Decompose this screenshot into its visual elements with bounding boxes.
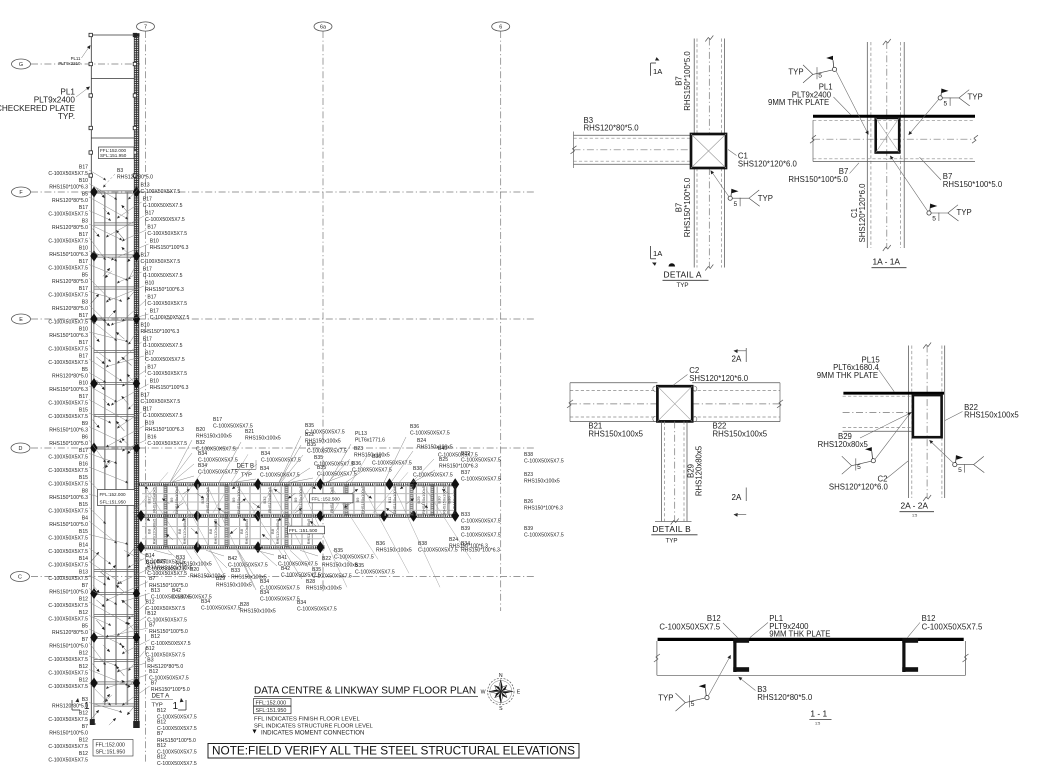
svg-text:B17: B17	[79, 232, 88, 238]
svg-text:RHS120*80*5.0: RHS120*80*5.0	[52, 374, 88, 380]
svg-text:RHS150*100*6.3: RHS150*100*6.3	[145, 287, 184, 293]
svg-text:B17: B17	[147, 365, 156, 371]
svg-text:1: 1	[173, 701, 179, 712]
svg-text:B42: B42	[228, 556, 237, 562]
svg-text:C-100X50X5X7.5: C-100X50X5X7.5	[213, 424, 253, 430]
svg-text:RHS150*100*5.0: RHS150*100*5.0	[49, 644, 88, 650]
svg-text:B7: B7	[151, 681, 157, 687]
svg-text:SFL:151.950: SFL:151.950	[100, 153, 127, 158]
svg-text:B16: B16	[147, 435, 156, 441]
svg-text:1A: 1A	[653, 249, 663, 258]
svg-text:B3: B3	[82, 300, 88, 306]
svg-text:B7: B7	[82, 724, 88, 730]
svg-text:C-100X50X5X7.5: C-100X50X5X7.5	[461, 458, 501, 464]
svg-text:C-100X50X5X7.5: C-100X50X5X7.5	[150, 315, 190, 321]
svg-text:1:5: 1:5	[912, 514, 917, 518]
svg-text:B35: B35	[307, 442, 316, 448]
svg-text:9MM THK PLATE: 9MM THK PLATE	[768, 98, 829, 107]
svg-text:B36: B36	[352, 461, 361, 467]
svg-text:TYP: TYP	[758, 194, 773, 203]
svg-text:B17: B17	[213, 417, 222, 423]
svg-text:C-100X50X5X7.5: C-100X50X5X7.5	[48, 212, 88, 218]
svg-text:FFL :151.500: FFL :151.500	[289, 528, 318, 534]
svg-text:B34: B34	[261, 451, 270, 457]
svg-text:B34: B34	[198, 451, 207, 457]
svg-text:RHS150x100x5: RHS150x100x5	[240, 609, 276, 615]
svg-text:RHS150*100*6.3: RHS150*100*6.3	[524, 506, 563, 512]
svg-text:FFL :152.500: FFL :152.500	[312, 497, 341, 503]
svg-text:RHS120x80x5: RHS120x80x5	[267, 486, 272, 513]
svg-text:C-100X50X5X7.5: C-100X50X5X7.5	[413, 473, 453, 479]
svg-text:B5: B5	[82, 624, 88, 630]
svg-text:TYP: TYP	[968, 93, 983, 102]
svg-text:B37: B37	[461, 470, 470, 476]
svg-text:5: 5	[734, 201, 738, 208]
svg-text:RHS150x100x5: RHS150x100x5	[376, 548, 412, 554]
svg-text:B12: B12	[157, 754, 166, 760]
svg-text:6: 6	[499, 24, 502, 30]
svg-text:C-100X50X5X7.5: C-100X50X5X7.5	[48, 171, 88, 177]
svg-text:B14: B14	[146, 560, 155, 566]
svg-text:C-100X50X5X7.5: C-100X50X5X7.5	[307, 449, 347, 455]
svg-text:C-100X50X5X7.5: C-100X50X5X7.5	[147, 371, 187, 377]
svg-text:B21: B21	[245, 429, 254, 435]
svg-text:D: D	[19, 446, 23, 452]
svg-text:RHS150*100*5.0: RHS150*100*5.0	[49, 731, 88, 737]
svg-text:DATA CENTRE & LINKWAY SUMP FLO: DATA CENTRE & LINKWAY SUMP FLOOR PLAN	[254, 686, 476, 697]
svg-text:RHS120*80*5.0: RHS120*80*5.0	[584, 124, 640, 133]
svg-text:W: W	[481, 690, 486, 696]
svg-text:FFL:152.000: FFL:152.000	[100, 492, 126, 497]
svg-text:C-100X50X5X7.5: C-100X50X5X7.5	[317, 472, 357, 478]
svg-text:RHS150x100x5: RHS150x100x5	[417, 445, 453, 451]
svg-text:C-100X50X5X7.5: C-100X50X5X7.5	[141, 189, 181, 195]
svg-text:B4: B4	[82, 516, 88, 522]
svg-text:RHS120x80x5: RHS120x80x5	[182, 518, 187, 545]
svg-text:B22: B22	[305, 432, 314, 438]
svg-text:RHS150*100*6.3: RHS150*100*6.3	[49, 428, 88, 434]
svg-text:5: 5	[958, 467, 962, 474]
svg-text:B23: B23	[354, 446, 363, 452]
svg-text:RHS120x80x5: RHS120x80x5	[151, 518, 156, 545]
svg-text:B5: B5	[82, 367, 88, 373]
svg-text:RHS120x80x5: RHS120x80x5	[213, 518, 218, 545]
svg-text:C-100X50X5X7.5: C-100X50X5X7.5	[147, 301, 187, 307]
svg-text:B10: B10	[141, 323, 150, 329]
svg-text:B40: B40	[438, 446, 447, 452]
svg-text:C-100X50X5X7.5: C-100X50X5X7.5	[260, 597, 300, 603]
svg-text:TYP: TYP	[152, 703, 163, 709]
svg-text:9MM THK PLATE: 9MM THK PLATE	[817, 371, 878, 380]
svg-text:TYP: TYP	[788, 68, 803, 77]
svg-text:1:5: 1:5	[815, 722, 820, 726]
svg-text:B12: B12	[157, 720, 166, 726]
svg-text:2A: 2A	[732, 355, 742, 364]
svg-text:C-100X50X5X7.5: C-100X50X5X7.5	[48, 603, 88, 609]
svg-text:B12: B12	[146, 599, 155, 605]
svg-text:RHS150*100*5.0: RHS150*100*5.0	[943, 180, 1003, 189]
svg-text:B14: B14	[79, 543, 88, 549]
svg-text:B12: B12	[79, 678, 88, 684]
svg-text:C-100X50X5X7.5: C-100X50X5X7.5	[260, 473, 300, 479]
svg-text:C-100X50X5X7.5: C-100X50X5X7.5	[145, 217, 185, 223]
svg-text:B17: B17	[145, 351, 154, 357]
svg-text:S: S	[499, 706, 503, 712]
svg-text:C-100X50X5X7.5: C-100X50X5X7.5	[48, 360, 88, 366]
svg-text:B34: B34	[260, 590, 269, 596]
svg-text:C-100X50X5X7.5: C-100X50X5X7.5	[922, 623, 983, 632]
svg-text:RHS120x80x5: RHS120x80x5	[818, 440, 869, 449]
svg-text:B10: B10	[150, 239, 159, 245]
svg-text:B17: B17	[79, 394, 88, 400]
svg-text:B10: B10	[79, 381, 88, 387]
svg-text:B12: B12	[149, 669, 158, 675]
svg-text:B12: B12	[146, 646, 155, 652]
svg-text:5: 5	[857, 464, 861, 471]
svg-text:C-100X50X5X7.5: C-100X50X5X7.5	[48, 758, 88, 764]
svg-text:C-100X50X5X7.5: C-100X50X5X7.5	[48, 744, 88, 750]
svg-text:B34: B34	[260, 466, 269, 472]
svg-text:B10: B10	[79, 178, 88, 184]
svg-text:RHS150x100x5: RHS150x100x5	[421, 485, 426, 514]
svg-text:B39: B39	[461, 526, 470, 532]
svg-text:RHS150*100*6.3: RHS150*100*6.3	[49, 387, 88, 393]
svg-text:1 - 1: 1 - 1	[810, 709, 827, 719]
svg-text:B17: B17	[150, 309, 159, 315]
svg-text:B7: B7	[82, 583, 88, 589]
svg-text:B12: B12	[79, 597, 88, 603]
svg-text:B23: B23	[524, 472, 533, 478]
svg-text:C-100X50X5X7.5: C-100X50X5X7.5	[143, 413, 183, 419]
svg-text:RHS120*80*5.0: RHS120*80*5.0	[757, 693, 813, 702]
svg-text:RHS150*100*6.3: RHS150*100*6.3	[145, 427, 184, 433]
svg-text:9MM THK PLATE: 9MM THK PLATE	[769, 630, 830, 639]
svg-text:C-100X50X5X7.5: C-100X50X5X7.5	[48, 414, 88, 420]
svg-text:RHS120*80*5.0: RHS120*80*5.0	[52, 704, 88, 710]
svg-text:RHS150x100x5: RHS150x100x5	[190, 574, 226, 580]
svg-text:C-100X50X5X7.5: C-100X50X5X7.5	[461, 533, 501, 539]
svg-text:RHS120x80x5: RHS120x80x5	[244, 518, 249, 545]
svg-text:B17: B17	[79, 340, 88, 346]
svg-text:5: 5	[691, 701, 695, 708]
svg-text:1A - 1A: 1A - 1A	[873, 257, 901, 267]
svg-text:INDICATES MOMENT CONNECTION: INDICATES MOMENT CONNECTION	[261, 729, 364, 736]
svg-text:SFL:151.950: SFL:151.950	[256, 708, 287, 714]
svg-text:C-100X50X5X7.5: C-100X50X5X7.5	[410, 431, 450, 437]
svg-text:C-100X50X5X7.5: C-100X50X5X7.5	[355, 570, 395, 576]
svg-text:DET A: DET A	[152, 693, 171, 700]
svg-text:B17: B17	[79, 354, 88, 360]
svg-text:B34: B34	[461, 541, 470, 547]
svg-text:B13: B13	[79, 570, 88, 576]
svg-text:B12: B12	[157, 743, 166, 749]
svg-text:G: G	[19, 62, 23, 68]
svg-text:C-100X50X5X7.5: C-100X50X5X7.5	[48, 509, 88, 515]
svg-text:B10: B10	[150, 379, 159, 385]
svg-text:C-100X50X5X7.5: C-100X50X5X7.5	[172, 595, 212, 601]
svg-text:C-100X50X5X7.5: C-100X50X5X7.5	[198, 470, 238, 476]
svg-text:RHS150x100x5: RHS150x100x5	[196, 434, 232, 440]
svg-text:C-100X50X5X7.5: C-100X50X5X7.5	[352, 468, 392, 474]
svg-text:B19: B19	[145, 421, 154, 427]
svg-text:C-100X50X5X7.5: C-100X50X5X7.5	[461, 519, 501, 525]
svg-text:RHS150*100*6.3: RHS150*100*6.3	[150, 385, 189, 391]
svg-text:RHS150*100*6.3: RHS150*100*6.3	[49, 185, 88, 191]
svg-text:RHS120*80*5.0: RHS120*80*5.0	[52, 279, 88, 285]
svg-text:2A - 2A: 2A - 2A	[901, 501, 929, 511]
svg-text:B28: B28	[240, 602, 249, 608]
svg-text:B7: B7	[157, 731, 163, 737]
svg-text:B3: B3	[82, 219, 88, 225]
svg-text:B16: B16	[79, 462, 88, 468]
svg-text:C-100X50X5X7.5: C-100X50X5X7.5	[201, 606, 241, 612]
svg-text:B26: B26	[524, 499, 533, 505]
svg-text:C-100X50X5X7.5: C-100X50X5X7.5	[151, 641, 191, 647]
svg-text:B42: B42	[172, 588, 181, 594]
svg-text:DETAIL A: DETAIL A	[664, 270, 702, 280]
svg-text:5: 5	[818, 73, 822, 80]
svg-text:RHS150*100*6.3: RHS150*100*6.3	[439, 464, 478, 470]
svg-text:C-100X50X5X7.5: C-100X50X5X7.5	[48, 320, 88, 326]
svg-text:DETAIL B: DETAIL B	[652, 524, 691, 534]
svg-text:C-100X50X5X7.5: C-100X50X5X7.5	[143, 343, 183, 349]
svg-text:C-100X50X5X7.5: C-100X50X5X7.5	[48, 347, 88, 353]
svg-text:B34: B34	[297, 600, 306, 606]
svg-text:C-100X50X5X7.5: C-100X50X5X7.5	[141, 399, 181, 405]
svg-text:B36: B36	[372, 454, 381, 460]
svg-text:B17: B17	[143, 267, 152, 273]
svg-text:B15: B15	[79, 475, 88, 481]
svg-text:RHS150*100*5.0: RHS150*100*5.0	[683, 51, 692, 111]
svg-text:SHS120*120*6.0: SHS120*120*6.0	[689, 374, 749, 383]
svg-text:B8: B8	[82, 489, 88, 495]
svg-text:E: E	[517, 690, 521, 696]
svg-text:RHS120*80*5.0: RHS120*80*5.0	[52, 225, 88, 231]
svg-text:B14: B14	[79, 556, 88, 562]
svg-text:B13: B13	[141, 183, 150, 189]
svg-text:RHS150*100*6.3: RHS150*100*6.3	[49, 333, 88, 339]
svg-text:RHS120*80*5.0: RHS120*80*5.0	[52, 306, 88, 312]
svg-text:B5: B5	[82, 273, 88, 279]
svg-text:B35: B35	[305, 423, 314, 429]
svg-text:B39: B39	[524, 526, 533, 532]
svg-text:B17: B17	[79, 205, 88, 211]
svg-text:5: 5	[932, 216, 936, 223]
svg-text:C-100X50X5X7.5: C-100X50X5X7.5	[48, 717, 88, 723]
svg-text:B38: B38	[524, 452, 533, 458]
svg-text:PLT9x2210: PLT9x2210	[58, 61, 81, 66]
svg-text:2A: 2A	[732, 493, 742, 502]
svg-text:B22: B22	[322, 556, 331, 562]
svg-text:RHS120x80x5: RHS120x80x5	[695, 445, 704, 496]
svg-text:C-100X50X5X7.5: C-100X50X5X7.5	[659, 623, 720, 632]
svg-text:C-100X50X5X7.5: C-100X50X5X7.5	[48, 657, 88, 663]
svg-text:C-100X50X5X7.5: C-100X50X5X7.5	[297, 607, 337, 613]
svg-text:B10: B10	[145, 281, 154, 287]
svg-text:B17: B17	[141, 253, 150, 259]
svg-text:B33: B33	[231, 568, 240, 574]
svg-text:RHS120*80*5.0: RHS120*80*5.0	[52, 630, 88, 636]
svg-text:C-100X50X5X7.5: C-100X50X5X7.5	[48, 617, 88, 623]
svg-text:C-100X50X5X7.5: C-100X50X5X7.5	[147, 441, 187, 447]
svg-text:1A: 1A	[653, 67, 663, 76]
svg-text:B17: B17	[79, 448, 88, 454]
svg-text:B12: B12	[79, 610, 88, 616]
svg-text:B5: B5	[82, 192, 88, 198]
svg-text:B17: B17	[79, 259, 88, 265]
svg-text:B17: B17	[143, 337, 152, 343]
svg-text:RHS150x100x5: RHS150x100x5	[245, 436, 281, 442]
svg-text:B36: B36	[376, 541, 385, 547]
svg-text:SHS120*120*6.0: SHS120*120*6.0	[858, 183, 867, 243]
svg-text:B3: B3	[147, 657, 153, 663]
svg-text:RHS120*80*5.0: RHS120*80*5.0	[52, 198, 88, 204]
svg-text:B24: B24	[417, 438, 426, 444]
svg-text:RHS150x100x5: RHS150x100x5	[216, 583, 252, 589]
svg-text:TYP: TYP	[677, 282, 689, 289]
svg-text:E: E	[19, 317, 23, 323]
svg-text:B10: B10	[79, 327, 88, 333]
svg-text:B17: B17	[147, 225, 156, 231]
svg-text:B3: B3	[117, 168, 123, 174]
svg-text:B33: B33	[176, 555, 185, 561]
svg-text:RHS150*100*5.0: RHS150*100*5.0	[683, 177, 692, 237]
svg-text:B12: B12	[151, 634, 160, 640]
svg-text:B12: B12	[147, 611, 156, 617]
svg-text:C-100X50X5X7.5: C-100X50X5X7.5	[141, 259, 181, 265]
svg-text:RHS120*80*5.0: RHS120*80*5.0	[117, 175, 153, 181]
svg-text:RHS150x100x5: RHS150x100x5	[306, 586, 342, 592]
svg-text:C-100X50X5X7.5: C-100X50X5X7.5	[48, 684, 88, 690]
svg-text:TYP: TYP	[957, 208, 972, 217]
svg-text:B32: B32	[461, 451, 470, 457]
svg-text:B20: B20	[190, 567, 199, 573]
svg-text:RHS150*100*6.3: RHS150*100*6.3	[141, 329, 180, 335]
svg-text:RHS120x80x5: RHS120x80x5	[275, 518, 280, 545]
svg-text:C-100X50X5X7.5: C-100X50X5X7.5	[48, 455, 88, 461]
svg-text:RHS120x80x5: RHS120x80x5	[205, 486, 210, 513]
svg-text:C-100X50X5X7.5: C-100X50X5X7.5	[48, 549, 88, 555]
svg-text:RHS150*100*5.0: RHS150*100*5.0	[49, 522, 88, 528]
svg-text:B32: B32	[196, 440, 205, 446]
svg-text:FFL:152.000: FFL:152.000	[96, 742, 126, 748]
svg-text:B28: B28	[306, 579, 315, 585]
svg-text:B9: B9	[82, 421, 88, 427]
svg-text:B10: B10	[79, 246, 88, 252]
svg-text:C-100X50X5X7.5: C-100X50X5X7.5	[145, 357, 185, 363]
svg-text:C-100X50X5X7.5: C-100X50X5X7.5	[157, 761, 197, 767]
svg-text:C-100X50X5X7.5: C-100X50X5X7.5	[147, 231, 187, 237]
svg-text:SHS120*120*6.0: SHS120*120*6.0	[829, 482, 889, 491]
svg-text:RHS150*100*6.3: RHS150*100*6.3	[49, 252, 88, 258]
svg-text:B7: B7	[149, 576, 155, 582]
svg-text:RHS150*100*6.3: RHS150*100*6.3	[49, 495, 88, 501]
svg-text:B25: B25	[439, 457, 448, 463]
svg-text:RHS150x100x5: RHS150x100x5	[713, 429, 768, 438]
svg-text:C-100X50X5X7.5: C-100X50X5X7.5	[524, 533, 564, 539]
svg-text:FFL INDICATES FINISH FLOOR LEV: FFL INDICATES FINISH FLOOR LEVEL	[254, 717, 360, 723]
svg-text:SHS120*120*6.0: SHS120*120*6.0	[738, 159, 798, 168]
svg-text:B35: B35	[314, 455, 323, 461]
svg-text:B42: B42	[281, 566, 290, 572]
svg-text:B38: B38	[413, 466, 422, 472]
svg-text:TYP: TYP	[666, 538, 678, 545]
svg-text:C-100X50X5X7.5: C-100X50X5X7.5	[48, 536, 88, 542]
svg-text:B17: B17	[145, 211, 154, 217]
svg-text:C-100X50X5X7.5: C-100X50X5X7.5	[48, 401, 88, 407]
svg-text:B13: B13	[151, 588, 160, 594]
svg-text:RHS150*100*6.3: RHS150*100*6.3	[150, 245, 189, 251]
svg-text:B35: B35	[355, 563, 364, 569]
svg-text:RHS150x100x5: RHS150x100x5	[451, 485, 456, 514]
svg-text:RHS150*100*5.0: RHS150*100*5.0	[49, 441, 88, 447]
svg-text:B17: B17	[141, 393, 150, 399]
svg-text:SFL:151.950: SFL:151.950	[100, 500, 127, 505]
svg-text:C-100X50X5X7.5: C-100X50X5X7.5	[48, 468, 88, 474]
svg-text:7: 7	[144, 24, 147, 30]
svg-text:B6: B6	[82, 435, 88, 441]
svg-text:C-100X50X5X7.5: C-100X50X5X7.5	[48, 576, 88, 582]
svg-text:C-100X50X5X7.5: C-100X50X5X7.5	[143, 203, 183, 209]
svg-text:B12: B12	[79, 751, 88, 757]
svg-text:C-100X50X5X7.5: C-100X50X5X7.5	[48, 266, 88, 272]
svg-text:1: 1	[84, 701, 90, 712]
svg-text:B15: B15	[79, 408, 88, 414]
svg-text:C-100X50X5X7.5: C-100X50X5X7.5	[143, 273, 183, 279]
svg-text:C-100X50X5X7.5: C-100X50X5X7.5	[48, 239, 88, 245]
svg-text:C-100X50X5X7.5: C-100X50X5X7.5	[48, 671, 88, 677]
svg-text:B12: B12	[79, 651, 88, 657]
svg-text:5: 5	[944, 101, 948, 108]
svg-text:B24: B24	[449, 537, 458, 543]
svg-text:TYP: TYP	[241, 473, 252, 479]
svg-text:B17: B17	[143, 407, 152, 413]
svg-text:PL13: PL13	[355, 431, 367, 437]
svg-text:B36: B36	[410, 424, 419, 430]
svg-text:B17: B17	[79, 313, 88, 319]
svg-text:B17: B17	[143, 197, 152, 203]
svg-text:B17: B17	[79, 286, 88, 292]
svg-text:NOTE:FIELD VERIFY ALL THE STEE: NOTE:FIELD VERIFY ALL THE STEEL STRUCTUR…	[212, 744, 575, 758]
svg-text:B12: B12	[79, 664, 88, 670]
svg-text:B17: B17	[79, 165, 88, 171]
svg-text:RHS150*100*5.0: RHS150*100*5.0	[49, 590, 88, 596]
svg-text:B27: B27	[157, 559, 166, 565]
svg-text:B17: B17	[147, 295, 156, 301]
svg-text:C-100X50X5X7.5: C-100X50X5X7.5	[524, 459, 564, 465]
svg-text:B12: B12	[157, 708, 166, 714]
svg-text:PLT6x1771.6: PLT6x1771.6	[355, 438, 385, 444]
svg-text:RHS150x100x5: RHS150x100x5	[524, 479, 560, 485]
svg-text:TYP: TYP	[658, 694, 673, 703]
svg-text:C-100X50X5X7.5: C-100X50X5X7.5	[461, 477, 501, 483]
svg-text:SFL:151.950: SFL:151.950	[96, 750, 126, 756]
svg-text:RHS150x100x5: RHS150x100x5	[392, 485, 397, 514]
svg-text:RHS150x100x5: RHS150x100x5	[322, 563, 358, 569]
svg-text:TYP.: TYP.	[58, 112, 75, 121]
svg-text:RHS150*100*5.0: RHS150*100*5.0	[788, 175, 848, 184]
svg-text:C-100X50X5X7.5: C-100X50X5X7.5	[261, 458, 301, 464]
svg-text:B20: B20	[196, 427, 205, 433]
svg-text:RHS150*100*6.3: RHS150*100*6.3	[461, 548, 500, 554]
svg-text:N: N	[499, 673, 503, 679]
svg-text:C-100X50X5X7.5: C-100X50X5X7.5	[146, 567, 186, 573]
svg-text:C-100X50X5X7.5: C-100X50X5X7.5	[48, 293, 88, 299]
svg-text:RHS150x100x5: RHS150x100x5	[231, 575, 267, 581]
svg-text:B15: B15	[79, 529, 88, 535]
svg-text:C-100X50X5X7.5: C-100X50X5X7.5	[48, 563, 88, 569]
svg-text:6a: 6a	[320, 24, 326, 30]
